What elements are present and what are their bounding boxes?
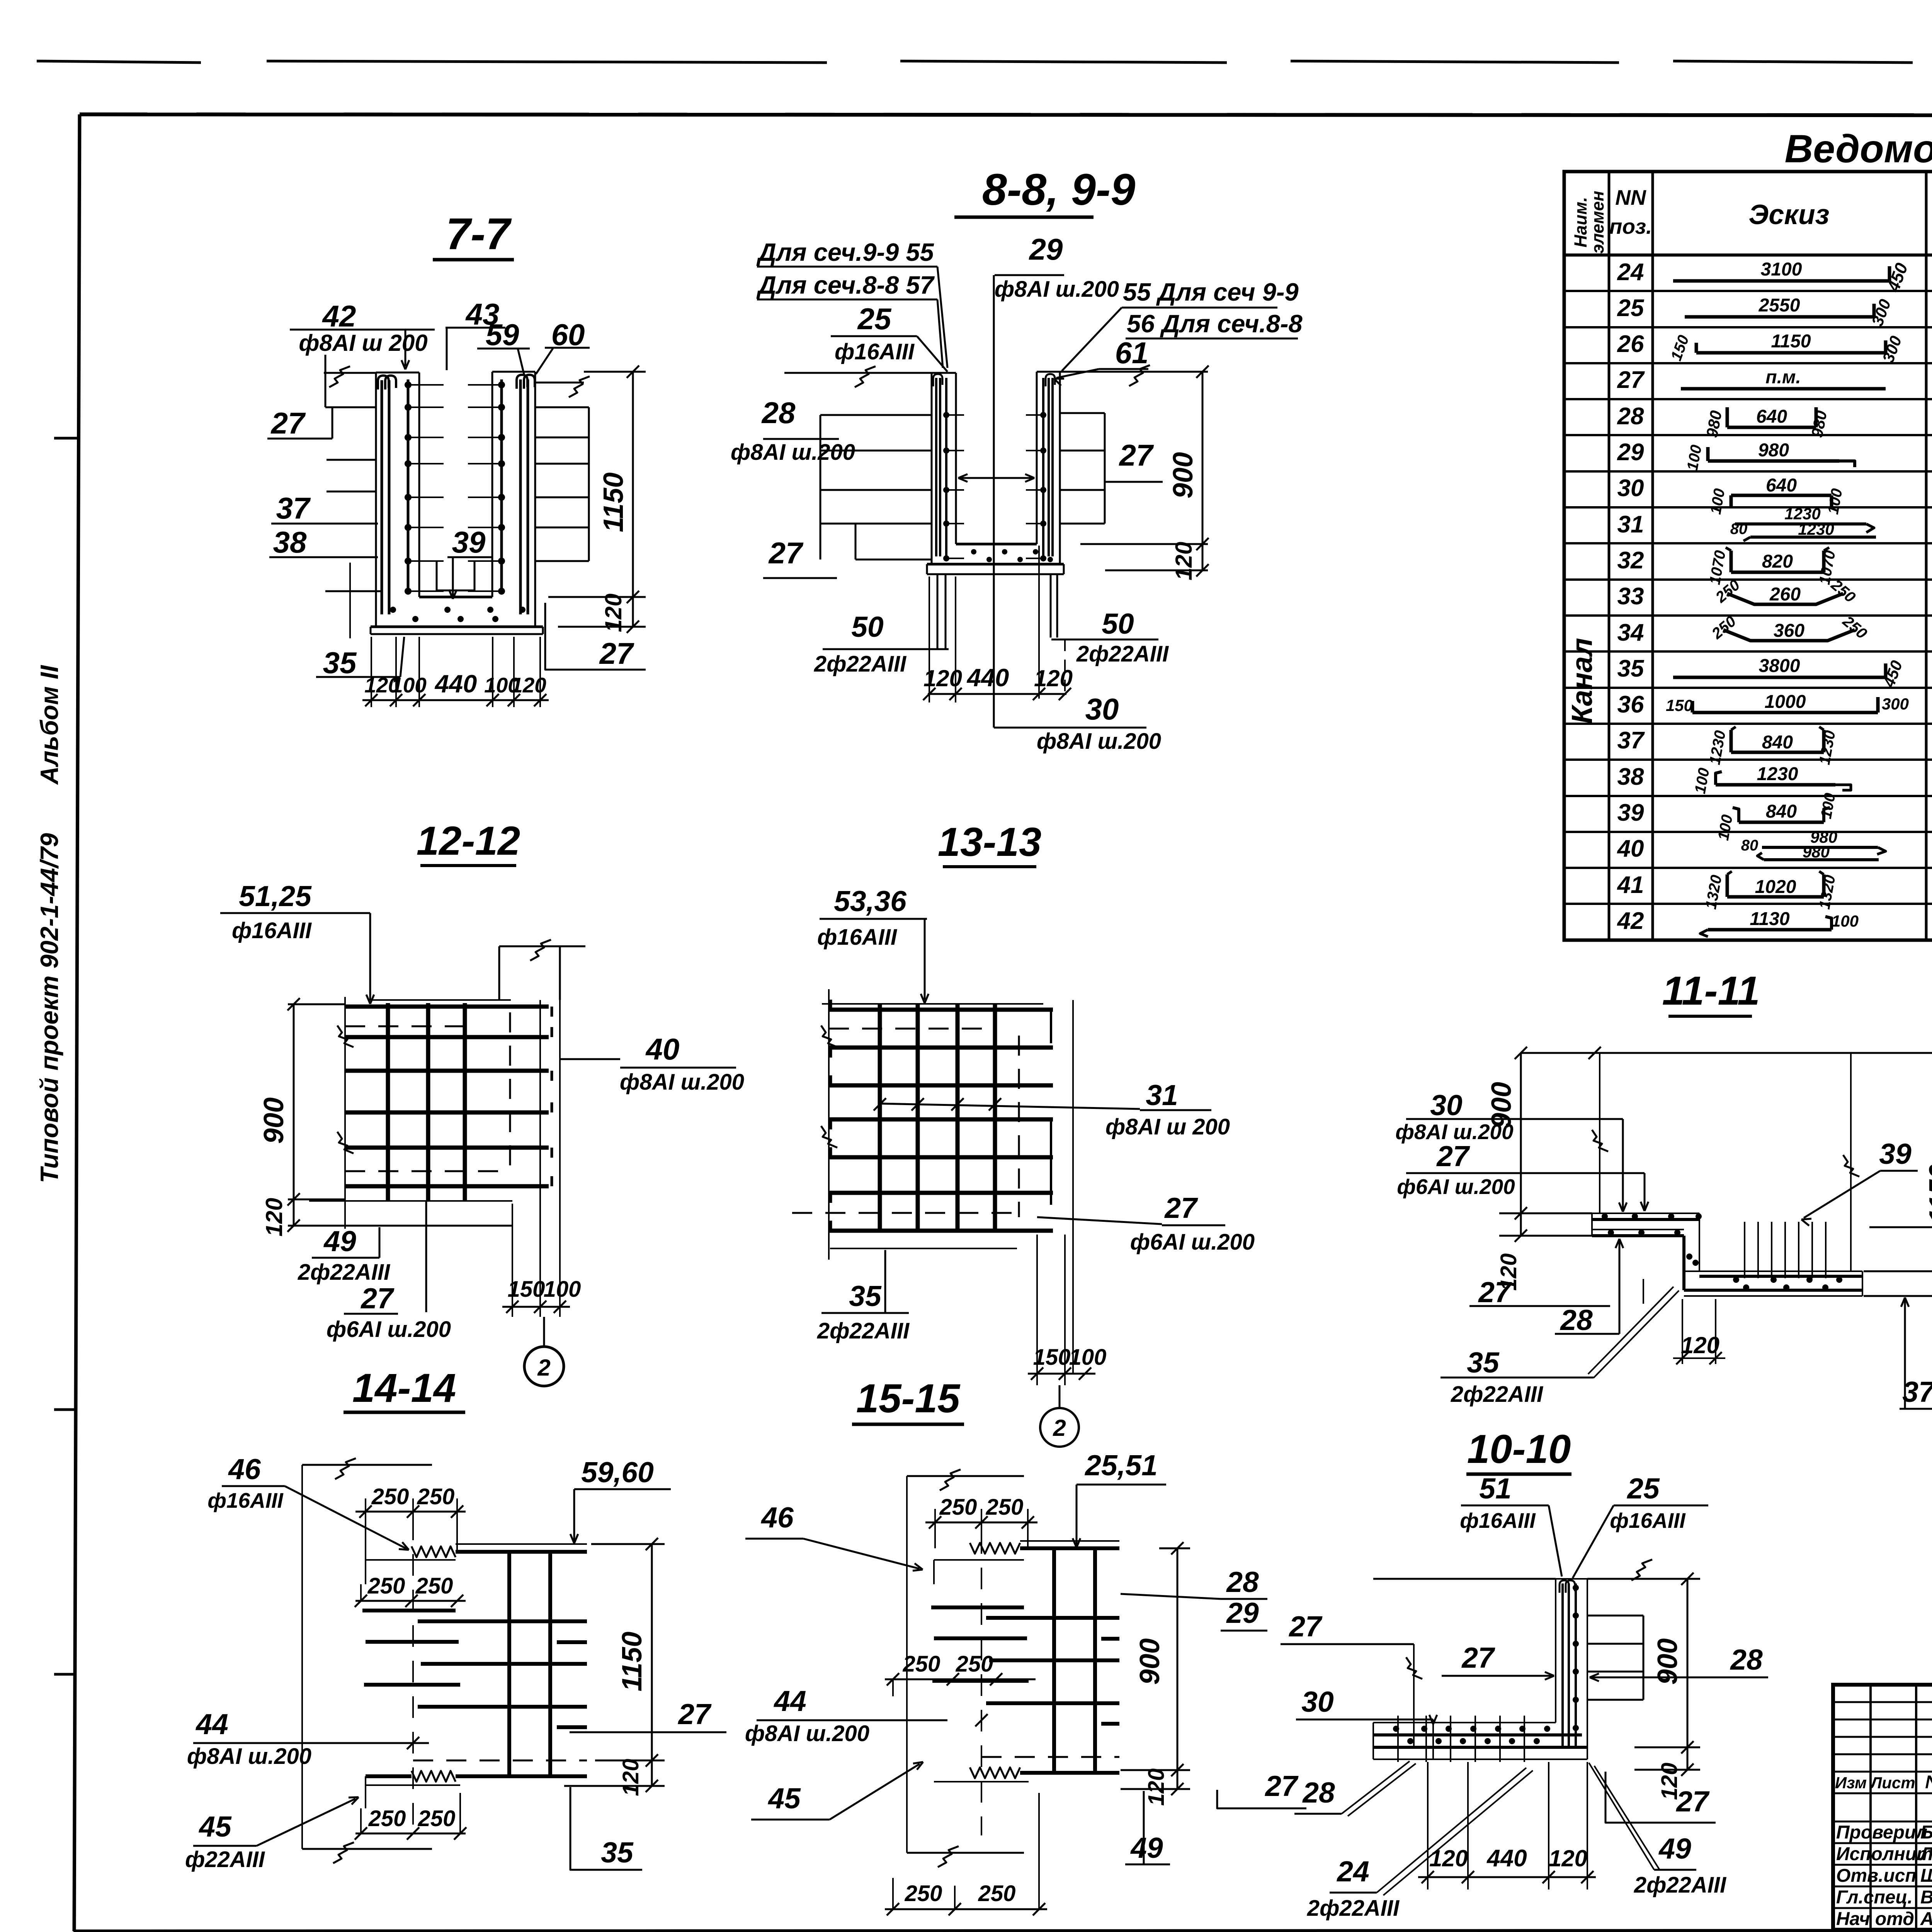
section 7-7 label 60	[536, 318, 590, 374]
svg-text:2550: 2550	[1759, 295, 1800, 316]
section 8-8 label 50 2ф22AIII right	[1051, 607, 1169, 667]
svg-text:27: 27	[360, 1282, 395, 1315]
svg-text:27: 27	[1288, 1610, 1323, 1643]
section 8-8 left wall rebar and dots	[933, 374, 964, 561]
svg-text:120: 120	[1144, 1769, 1169, 1806]
section 11-11 label 39	[1801, 1138, 1918, 1226]
section 10-10 right ladder	[1587, 1616, 1643, 1700]
svg-text:250: 250	[415, 1573, 453, 1599]
section 11-11 label 27 ф6AI ш.200	[1397, 1140, 1648, 1211]
svg-text:Литвиненко: Литвиненко	[1919, 1844, 1932, 1864]
section 7-7 left wall bar 43 with stirrup dots	[405, 379, 444, 595]
svg-text:640: 640	[1766, 475, 1797, 496]
svg-text:980: 980	[1803, 843, 1830, 861]
svg-text:51,25: 51,25	[239, 880, 312, 912]
svg-text:39: 39	[452, 525, 486, 559]
svg-text:ф8AI ш.200: ф8AI ш.200	[620, 1070, 744, 1095]
section 11-11 lower slab concrete	[1684, 1271, 1862, 1296]
section 14-14 label 27 right	[570, 1698, 726, 1732]
svg-text:59,60: 59,60	[581, 1456, 654, 1488]
section 13-13 node circle 2	[1040, 1385, 1079, 1447]
svg-text:60: 60	[551, 318, 585, 352]
section 10-10 label 25 ф16AIII	[1573, 1472, 1708, 1578]
svg-text:27: 27	[1675, 1785, 1710, 1818]
svg-text:7-7: 7-7	[446, 209, 512, 259]
svg-text:30: 30	[1430, 1089, 1462, 1121]
svg-text:49: 49	[1658, 1832, 1691, 1865]
section 15-15 mid dimension 250 250	[885, 1651, 1036, 1696]
section 12-12 title	[417, 818, 520, 866]
svg-text:Изм: Изм	[1835, 1774, 1867, 1792]
section 13-13 mesh horizontal bars	[829, 1000, 1053, 1231]
section 7-7 dimension 1150 and 120 right	[548, 366, 646, 633]
svg-text:250: 250	[368, 1806, 406, 1831]
section 8-8 right step ladder	[1060, 413, 1105, 524]
section 8-8 label 50 2ф22AIII left	[814, 611, 949, 677]
svg-text:29: 29	[1617, 439, 1644, 466]
section 7-7 label 27 bottom-right	[545, 603, 646, 670]
svg-text:28: 28	[1302, 1776, 1335, 1809]
section 8-8 label 28 ф8AI ш.200	[731, 396, 855, 465]
svg-text:NN: NN	[1615, 185, 1646, 209]
title block left grid	[1833, 1685, 1932, 1930]
frame fold tick marks on left edge	[54, 438, 79, 1674]
section 7-7 concrete outline	[371, 372, 543, 634]
left table headers	[1571, 185, 1932, 253]
svg-text:46: 46	[760, 1501, 794, 1534]
svg-text:100: 100	[544, 1277, 581, 1302]
section 12-12 label 51,25 ф16AIII	[220, 880, 374, 1004]
section 10-10 wall concrete	[1556, 1579, 1587, 1759]
svg-text:37: 37	[1902, 1376, 1932, 1408]
top dashed trim line	[37, 61, 1932, 63]
svg-text:51: 51	[1479, 1472, 1511, 1505]
svg-text:27: 27	[1264, 1770, 1299, 1802]
section 15-15 label 27 right-bottom	[1217, 1770, 1306, 1808]
svg-text:840: 840	[1762, 732, 1793, 753]
section 7-7 bottom dimension chain 120 100 440 100 120	[362, 637, 549, 707]
section 10-10 slab concrete	[1373, 1723, 1587, 1759]
svg-text:250: 250	[367, 1573, 405, 1599]
section 13-13 label 53,36 ф16AIII	[817, 885, 929, 1003]
svg-text:440: 440	[966, 663, 1009, 692]
section 10-10 dimension 900 and 120 right	[1634, 1573, 1700, 1800]
svg-text:1150: 1150	[598, 473, 629, 532]
section 15-15 label 45	[751, 1762, 923, 1820]
svg-text:Власенко: Власенко	[1920, 1887, 1932, 1908]
svg-text:61: 61	[1115, 336, 1149, 370]
section 11-11 dimension 1150 and 120 right	[1864, 1053, 1932, 1305]
section 15-15 label 49	[1125, 1791, 1170, 1864]
svg-text:ф6AI ш.200: ф6AI ш.200	[327, 1317, 451, 1342]
svg-text:12-12: 12-12	[417, 818, 520, 864]
svg-text:Типовой проект 902-1-44/79: Типовой проект 902-1-44/79	[35, 833, 63, 1183]
svg-text:59: 59	[486, 318, 519, 352]
section 8-8 top-right witness with break	[1060, 365, 1208, 386]
svg-text:2ф22AIII: 2ф22AIII	[1076, 641, 1169, 667]
section 15-15 mesh right horizontals	[986, 1618, 1119, 1724]
section 12-12 dashed distribution bars	[345, 1012, 510, 1171]
svg-text:250: 250	[986, 1495, 1024, 1520]
section 15-15 label 46	[745, 1501, 923, 1571]
svg-text:28: 28	[1730, 1643, 1763, 1676]
svg-text:150: 150	[508, 1277, 545, 1302]
section 11-11 dimension 120 under wall	[1673, 1299, 1725, 1364]
svg-text:33: 33	[1617, 583, 1644, 610]
svg-text:46: 46	[228, 1453, 261, 1485]
svg-text:260: 260	[1769, 584, 1801, 605]
svg-text:30: 30	[1617, 475, 1644, 502]
svg-text:250: 250	[905, 1881, 942, 1906]
section 8-8 right wall rebar and dots	[1026, 374, 1055, 561]
svg-text:120: 120	[1681, 1332, 1719, 1358]
svg-text:2: 2	[1053, 1415, 1066, 1441]
svg-text:34: 34	[1617, 619, 1644, 646]
svg-text:900: 900	[1652, 1638, 1683, 1685]
svg-text:53,36: 53,36	[834, 885, 907, 917]
svg-text:27: 27	[1436, 1140, 1470, 1172]
svg-text:ф16AIII: ф16AIII	[817, 925, 898, 950]
svg-text:2ф22AIII: 2ф22AIII	[814, 651, 907, 677]
svg-text:1230: 1230	[1757, 764, 1798, 784]
section 14-14 top bar with splice hatch	[412, 1544, 587, 1557]
section 15-15 top dimension 250 250	[925, 1495, 1037, 1548]
section 7-7 right wall hairpin rebar	[517, 375, 535, 614]
section 13-13 right edge hooks	[1050, 1012, 1052, 1043]
svg-text:30: 30	[1085, 692, 1119, 726]
section 7-7 label 59	[477, 318, 530, 376]
svg-text:35: 35	[1617, 655, 1645, 682]
section 10-10 title	[1466, 1427, 1571, 1474]
section 14-14 label 44 ф8AI ш.200	[187, 1708, 429, 1769]
svg-text:250: 250	[417, 1484, 455, 1509]
svg-text:27: 27	[1617, 367, 1645, 393]
section 11-11 label 37	[1900, 1298, 1932, 1409]
section 15-15 bottom dimension 250 250	[885, 1793, 1047, 1915]
section 8-8 left extension ladder	[820, 415, 932, 560]
svg-text:ф8AI ш.200: ф8AI ш.200	[731, 440, 855, 465]
svg-text:1150: 1150	[617, 1632, 648, 1692]
title block header row labels	[1835, 1772, 1932, 1793]
svg-text:ф6AI ш.200: ф6AI ш.200	[1130, 1230, 1255, 1255]
svg-text:ф8AI ш.200: ф8AI ш.200	[995, 277, 1119, 302]
svg-text:250: 250	[978, 1881, 1016, 1906]
section 15-15 dashed column axis	[981, 1532, 982, 1835]
svg-text:49: 49	[1130, 1832, 1163, 1864]
section 13-13 label 35 2ф22AIII	[817, 1250, 910, 1344]
section 12-12 label 27 ф6AI ш.200	[327, 1201, 451, 1342]
section 8-8 label 55 Для сеч 9-9	[1062, 278, 1299, 371]
section 14-14 bottom bar with splice hatch	[366, 1771, 587, 1808]
section 10-10 label 28 right	[1590, 1643, 1768, 1681]
section 14-14 left witness frame with breaks	[302, 1458, 432, 1863]
section 12-12 top-right corner extension	[499, 940, 585, 1000]
svg-text:35: 35	[1467, 1346, 1500, 1379]
section 12-12 dimension 900 and 120 left	[259, 998, 512, 1236]
svg-text:27: 27	[270, 406, 306, 440]
svg-text:п.м.: п.м.	[1765, 367, 1801, 388]
svg-text:80: 80	[1741, 837, 1759, 854]
svg-text:Арсенов: Арсенов	[1920, 1909, 1932, 1929]
section 14-14 top dimension 250 250	[355, 1484, 466, 1560]
section 11-11 title	[1662, 968, 1760, 1016]
svg-text:ф8AI ш.200: ф8AI ш.200	[745, 1721, 869, 1746]
svg-text:120: 120	[1171, 542, 1197, 580]
section 15-15 mesh right verticals	[1054, 1547, 1095, 1773]
svg-text:25,51: 25,51	[1084, 1449, 1158, 1481]
svg-text:56 Для сеч.8-8: 56 Для сеч.8-8	[1127, 310, 1303, 338]
svg-text:250: 250	[371, 1484, 409, 1509]
svg-text:120: 120	[618, 1759, 643, 1796]
section 8-8 label 25 ф16AIII	[831, 302, 947, 372]
section 8-8 label 61	[1054, 336, 1148, 386]
svg-text:Лист: Лист	[1869, 1774, 1915, 1792]
svg-text:35: 35	[323, 646, 357, 680]
section 7-7 thin witness under wall	[349, 563, 351, 638]
svg-text:28: 28	[1617, 403, 1644, 430]
svg-text:ф16AIII: ф16AIII	[232, 918, 312, 943]
section 7-7 right extension ladder with break	[535, 376, 590, 561]
svg-text:42: 42	[322, 299, 356, 333]
section 8-8 label 56 Для сеч.8-8	[1126, 310, 1303, 338]
svg-text:50: 50	[1102, 607, 1134, 640]
svg-text:120: 120	[511, 673, 546, 697]
section 10-10 wall rebar hairpin and dots	[1560, 1580, 1579, 1747]
svg-text:45: 45	[198, 1810, 232, 1843]
section 13-13 label 31 ф8AI ш200 with leader	[874, 1079, 1230, 1139]
section 7-7 hairpin 39 in channel	[437, 561, 474, 590]
svg-text:2ф22AIII: 2ф22AIII	[817, 1318, 910, 1344]
section 8-8 label 29 ф8AI ш.200 with central leader	[958, 232, 1119, 728]
svg-text:Альбом II: Альбом II	[35, 665, 63, 785]
section 8-8 bottom slab dots	[971, 549, 1053, 562]
svg-text:1150: 1150	[1771, 331, 1811, 352]
svg-text:3800: 3800	[1759, 656, 1800, 676]
section 11-11 label 35 2ф22AIII with double leader	[1440, 1287, 1679, 1407]
svg-text:900: 900	[259, 1097, 289, 1144]
section 14-14 mesh right verticals	[509, 1550, 550, 1776]
section 10-10 label 28 bottom-left	[1294, 1761, 1416, 1816]
section 15-15 top bar with splice hatch	[970, 1541, 1119, 1554]
section 11-11 step wall	[1684, 1213, 1699, 1290]
section 10-10 label 30	[1296, 1685, 1437, 1759]
svg-text:820: 820	[1762, 551, 1793, 572]
section 15-15 dashed bottom distribution	[981, 1756, 1119, 1758]
svg-text:100: 100	[391, 673, 427, 697]
svg-text:39: 39	[1879, 1138, 1912, 1170]
section 8-8 top-left witness with break	[784, 366, 932, 387]
svg-text:32: 32	[1617, 547, 1644, 574]
svg-text:25: 25	[1626, 1472, 1660, 1505]
svg-text:11-11: 11-11	[1662, 968, 1760, 1014]
section 12-12 dimension 150 100 bottom right	[502, 1000, 581, 1317]
svg-text:440: 440	[434, 670, 477, 698]
section 11-11 top dimension line	[1515, 1047, 1932, 1059]
svg-text:27: 27	[1478, 1276, 1512, 1308]
svg-text:8-8, 9-9: 8-8, 9-9	[982, 165, 1135, 214]
svg-text:3100: 3100	[1761, 259, 1802, 280]
svg-text:31: 31	[1146, 1079, 1178, 1111]
svg-text:27: 27	[768, 536, 804, 570]
section 8-8 protruding bars 50 below slab	[937, 574, 1065, 692]
title block outer frame	[1833, 1685, 1932, 1930]
svg-text:Проверил: Проверил	[1836, 1822, 1927, 1843]
svg-text:120: 120	[261, 1198, 287, 1236]
svg-text:ф8AI ш 200: ф8AI ш 200	[299, 330, 427, 356]
svg-text:37: 37	[1617, 727, 1645, 754]
section 8-8 9-9 title	[954, 165, 1135, 217]
section 7-7 bottom slab bar dots	[390, 607, 526, 622]
svg-text:поз.: поз.	[1609, 214, 1652, 238]
svg-text:15-15: 15-15	[856, 1376, 961, 1421]
section 13-13 label 27 ф6AI ш.200	[1037, 1192, 1255, 1255]
svg-text:27: 27	[1119, 438, 1154, 472]
svg-text:41: 41	[1617, 872, 1644, 898]
svg-text:150: 150	[1666, 696, 1693, 714]
section 7-7 label 37	[271, 491, 378, 525]
svg-text:30: 30	[1301, 1685, 1333, 1718]
section 10-10 label 27 left	[1281, 1610, 1422, 1747]
section 7-7 top-left witness line with break	[324, 355, 376, 407]
section 12-12 label 49 2ф22AIII	[298, 1225, 391, 1285]
svg-text:38: 38	[273, 525, 307, 559]
section 14-14 label 35	[570, 1787, 642, 1870]
svg-text:40: 40	[645, 1032, 680, 1066]
svg-text:80: 80	[1730, 520, 1748, 537]
svg-text:28: 28	[761, 396, 796, 430]
svg-text:10-10: 10-10	[1467, 1427, 1571, 1472]
section 8-8 bottom dimension chain 120 440 120	[923, 546, 1073, 702]
svg-text:1230: 1230	[1798, 520, 1834, 538]
svg-text:Отв.исп: Отв.исп	[1836, 1866, 1917, 1886]
section 11-11 label 28	[1555, 1239, 1643, 1336]
section 10-10 label 49 2ф22AIII	[1589, 1763, 1727, 1898]
section 10-10 top witness lines	[1373, 1560, 1652, 1580]
section 15-15 label 25,51	[1073, 1449, 1166, 1548]
svg-text:Шкляр: Шкляр	[1920, 1866, 1932, 1886]
section 7-7 label 43	[446, 297, 505, 370]
svg-text:37: 37	[276, 491, 311, 525]
svg-text:25: 25	[857, 302, 892, 336]
svg-text:ф8AI ш 200: ф8AI ш 200	[1105, 1114, 1230, 1139]
section 10-10 bottom dimension 120 440 120	[1418, 1762, 1596, 1889]
svg-text:2ф22AIII: 2ф22AIII	[298, 1260, 391, 1285]
section 14-14 mid dimension 250 250	[355, 1573, 466, 1607]
section 14-14 label 46 ф16AIII	[207, 1453, 409, 1550]
svg-text:120: 120	[923, 665, 962, 691]
svg-text:27: 27	[599, 636, 634, 670]
section 12-12 mesh vertical bars	[388, 1003, 465, 1201]
section 7-7 label 39	[447, 525, 492, 599]
svg-text:Для сеч.9-9 55: Для сеч.9-9 55	[756, 238, 934, 266]
section 14-14 bottom dimension 250 250	[355, 1793, 466, 1840]
svg-text:100: 100	[1069, 1345, 1107, 1370]
svg-text:31: 31	[1617, 511, 1644, 538]
svg-text:28: 28	[1560, 1304, 1593, 1336]
section 13-13 mesh vertical bars	[880, 1005, 995, 1233]
section 11-11 stirrup bars 39 fan	[1745, 1222, 1826, 1278]
section 15-15 labels 28 29 right	[1121, 1566, 1267, 1631]
svg-text:28: 28	[1226, 1566, 1259, 1598]
svg-text:2ф22AIII: 2ф22AIII	[1451, 1382, 1544, 1407]
svg-text:49: 49	[323, 1225, 356, 1257]
svg-text:44: 44	[773, 1685, 806, 1717]
svg-text:50: 50	[851, 611, 883, 643]
svg-text:840: 840	[1766, 801, 1797, 822]
svg-text:26: 26	[1617, 331, 1644, 357]
section 7-7 label 27 top-left	[267, 406, 332, 440]
svg-text:900: 900	[1168, 452, 1199, 498]
section 7-7 label 42 ф8AI ш200	[290, 299, 435, 369]
section 8-8 label 30 ф8AI ш.200	[994, 692, 1161, 754]
svg-text:1130: 1130	[1750, 909, 1790, 929]
title block signature rows	[1836, 1822, 1932, 1929]
section 7-7 left extension ladder	[325, 407, 382, 591]
svg-text:250: 250	[903, 1651, 940, 1677]
svg-text:Эскиз: Эскиз	[1748, 199, 1829, 230]
svg-text:250: 250	[418, 1806, 456, 1831]
section 12-12 slab edge outline	[309, 997, 540, 1229]
svg-text:ф8AI ш.200: ф8AI ш.200	[1037, 729, 1161, 754]
section 11-11 witness verticals with breaks	[1592, 1053, 1859, 1271]
svg-text:27: 27	[1461, 1641, 1495, 1674]
svg-text:360: 360	[1774, 621, 1804, 641]
section 10-10 label 27 middle	[1442, 1641, 1554, 1680]
section 11-11 dimension 900 and 120 left	[1486, 1053, 1592, 1291]
section 11-11 label 27 bottom-left	[1469, 1276, 1610, 1308]
svg-text:250: 250	[956, 1651, 993, 1677]
left table numeric columns	[1617, 259, 1932, 934]
section 8-8 label Для сеч.9-9 55	[756, 238, 947, 368]
svg-text:ф16AIII: ф16AIII	[1610, 1509, 1686, 1532]
svg-text:42: 42	[1617, 908, 1644, 934]
section 11-11 upper slab concrete	[1592, 1213, 1699, 1236]
svg-text:440: 440	[1486, 1845, 1527, 1872]
section 8-8 dimension 900 and 120 right	[1080, 366, 1209, 580]
section 8-8 concrete outline	[927, 372, 1064, 574]
svg-text:ф16AIII: ф16AIII	[1460, 1509, 1536, 1532]
svg-text:ф22AIII: ф22AIII	[185, 1847, 265, 1872]
section 15-15 left short bars	[931, 1560, 1029, 1681]
svg-text:Нач отд: Нач отд	[1836, 1909, 1914, 1929]
section 7-7 right wall bar with stirrup dots	[468, 379, 505, 595]
section 15-15 label 44 ф8AI ш.200	[745, 1685, 988, 1746]
svg-text:Ведомость стержней на один эле: Ведомость стержней на один элемент	[1785, 127, 1932, 171]
svg-text:640: 640	[1756, 406, 1787, 427]
svg-text:35: 35	[849, 1280, 882, 1312]
svg-text:2ф22AIII: 2ф22AIII	[1307, 1896, 1400, 1921]
section 10-10 slab dots	[1393, 1726, 1550, 1744]
section 14-14 dashed bottom distribution	[413, 1760, 587, 1762]
svg-text:24: 24	[1617, 259, 1644, 286]
svg-text:элемен: элемен	[1588, 191, 1607, 254]
section 15-15 dimension 900 and 120 right	[1121, 1542, 1190, 1806]
svg-text:24: 24	[1336, 1855, 1369, 1888]
svg-text:29: 29	[1029, 232, 1063, 266]
svg-text:250: 250	[939, 1495, 977, 1520]
section 11-11 label 27 far right	[1869, 1194, 1932, 1227]
section 12-12 label 40 ф8AI ш.200	[560, 1032, 744, 1095]
svg-text:1150: 1150	[1924, 1164, 1932, 1224]
section 13-13 dashed distribution bars	[792, 1029, 1019, 1217]
section 14-14 label 59,60	[570, 1456, 671, 1543]
svg-text:№ докум.: № докум.	[1925, 1772, 1932, 1793]
svg-text:120: 120	[1034, 665, 1073, 691]
section 13-13 dimension 150 100 bottom	[1028, 1235, 1106, 1385]
svg-text:55 Для сеч 9-9: 55 Для сеч 9-9	[1123, 278, 1299, 306]
svg-text:120: 120	[1549, 1845, 1587, 1871]
section 12-12 mesh horizontal bars	[345, 1007, 552, 1186]
